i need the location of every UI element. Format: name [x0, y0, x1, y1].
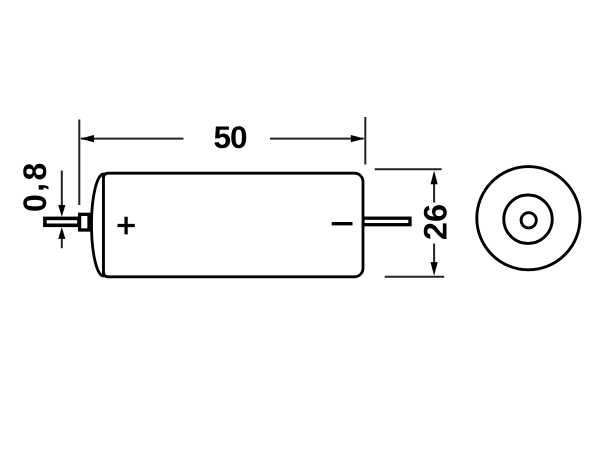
dimension 0,8: stub line below — [61, 239, 63, 249]
arrow up to lead — [58, 227, 65, 239]
dimension 50: right extension line — [364, 117, 366, 165]
wire lead right (negative axial lead) — [363, 218, 410, 225]
arrow down to lead — [58, 205, 65, 217]
end view middle circle — [504, 195, 552, 243]
svg-text:50: 50 — [213, 119, 247, 155]
svg-text:0,8: 0,8 — [15, 160, 54, 212]
dimension 26: line upper segment — [433, 183, 435, 203]
battery dome (left end cap) — [92, 174, 104, 276]
positive terminal nub — [80, 214, 89, 230]
dimension 50: line right segment — [270, 138, 364, 140]
arrow right — [351, 135, 365, 142]
dimension 26: bottom extension line — [385, 276, 445, 278]
dimension 50: left extension line — [78, 120, 80, 206]
dimension 26: line lower segment — [433, 244, 435, 263]
arrow down — [431, 262, 438, 276]
dimension 26: top extension line — [375, 168, 442, 170]
dimension 50: line left segment — [81, 138, 184, 140]
minus sign — [332, 222, 353, 225]
battery body — [104, 173, 364, 277]
dimension 0,8: leader line above — [61, 171, 63, 207]
end view inner circle — [521, 213, 536, 228]
svg-text:26: 26 — [418, 204, 454, 240]
wire lead left (positive axial lead) — [45, 218, 79, 225]
end view outer circle — [477, 167, 580, 270]
arrow up — [431, 171, 438, 185]
plus sign — [118, 217, 135, 235]
arrow left — [80, 135, 94, 142]
